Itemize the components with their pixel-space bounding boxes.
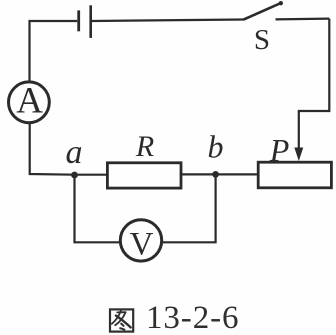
svg-text:S: S bbox=[254, 24, 270, 56]
rheostat P body bbox=[258, 162, 331, 188]
node b bbox=[212, 171, 219, 178]
battery positive plate bbox=[89, 5, 92, 38]
wire bbox=[216, 173, 259, 175]
resistor R body bbox=[107, 163, 181, 188]
wire bbox=[181, 173, 216, 175]
wire bbox=[30, 21, 78, 81]
voltmeter V circle bbox=[120, 220, 161, 261]
wire bbox=[75, 174, 108, 176]
svg-text:a: a bbox=[66, 134, 83, 171]
switch S blade bbox=[244, 3, 281, 19]
svg-text:R: R bbox=[135, 130, 154, 163]
wire bbox=[30, 124, 75, 175]
switch S right contact wire bbox=[276, 18, 330, 21]
wire bbox=[92, 20, 244, 22]
rheostat wiper arrowhead bbox=[294, 148, 303, 162]
svg-text:A: A bbox=[16, 81, 43, 122]
wire bbox=[299, 19, 330, 150]
svg-text:13-2-6: 13-2-6 bbox=[146, 300, 239, 335]
battery negative plate bbox=[77, 10, 80, 31]
wire bbox=[163, 174, 216, 242]
ammeter A circle bbox=[9, 82, 50, 123]
switch S blade tip dot bbox=[279, 1, 283, 5]
svg-text:P: P bbox=[269, 132, 290, 168]
svg-text:V: V bbox=[130, 227, 154, 263]
caption hanzi 图 (drawn) bbox=[110, 309, 133, 331]
svg-text:b: b bbox=[208, 129, 224, 165]
node a bbox=[71, 172, 78, 179]
wire bbox=[75, 175, 120, 242]
